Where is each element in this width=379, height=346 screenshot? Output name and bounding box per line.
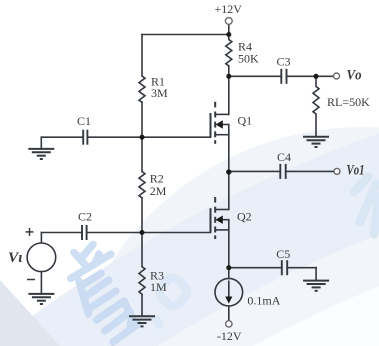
svg-text:RL=50K: RL=50K [327, 95, 370, 109]
svg-text:2M: 2M [150, 184, 167, 198]
svg-text:Vο1: Vο1 [347, 163, 365, 179]
svg-text:C3: C3 [277, 55, 291, 69]
svg-text:C1: C1 [77, 114, 91, 128]
svg-text:Vο: Vο [347, 68, 362, 84]
svg-text:Vι: Vι [8, 250, 23, 266]
svg-text:Q2: Q2 [237, 210, 252, 224]
svg-text:C4: C4 [277, 150, 291, 164]
svg-text:50K: 50K [238, 52, 259, 66]
svg-text:C5: C5 [276, 247, 290, 261]
svg-text:C2: C2 [78, 210, 92, 224]
svg-text:Q1: Q1 [238, 113, 253, 127]
svg-text:-12V: -12V [217, 329, 242, 343]
svg-text:+12V: +12V [215, 2, 243, 16]
svg-text:0.1mA: 0.1mA [247, 293, 280, 307]
svg-text:1M: 1M [150, 280, 167, 294]
svg-text:3M: 3M [151, 86, 168, 100]
